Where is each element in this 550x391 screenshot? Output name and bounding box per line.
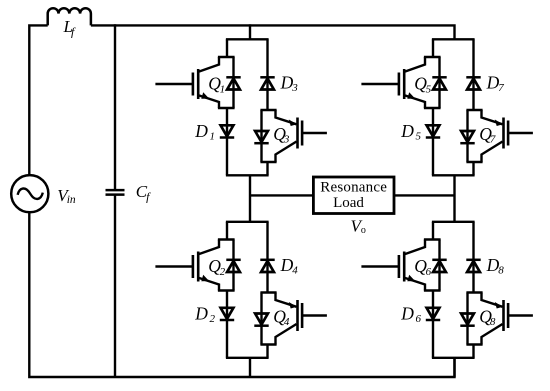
wire: Q2/D4 cell top bar	[226, 221, 269, 223]
diode D8	[466, 260, 480, 272]
wire: D2 branch bottom	[226, 291, 228, 358]
antiparallel diode of Q5	[432, 77, 446, 89]
wire: D6 branch bottom	[432, 291, 434, 358]
wire: Q2 antiparallel diode branch	[232, 240, 234, 291]
wire: D4 branch top	[266, 222, 268, 293]
diode D1	[220, 125, 234, 137]
wire: D8 branch top	[472, 222, 474, 293]
wire: load right lead	[394, 194, 455, 196]
AC source Vin	[11, 175, 48, 212]
antiparallel diode of Q8	[460, 314, 474, 326]
wire: Q7 subcell bottom stub bar	[466, 161, 482, 163]
wire: Q6 subcell top stub bar	[424, 238, 441, 240]
diode D6	[426, 308, 440, 320]
wire: Q4 subcell bottom stub bar	[260, 343, 276, 345]
transistor Q6 (IGBT)	[361, 240, 425, 291]
wire: D7 branch top	[472, 39, 474, 110]
wire: Q5/D7 cell top bar	[432, 38, 475, 40]
wire: top tap to left bridge leg	[249, 24, 251, 39]
wire: Q8 subcell bottom stub bar	[466, 343, 482, 345]
wire: D5/Q7 cell bottom bar	[432, 174, 475, 176]
wire: Q5 branch top	[432, 39, 434, 57]
wire: Q3 subcell bottom stub bar	[260, 161, 276, 163]
wire: Q2 subcell top stub bar	[218, 238, 235, 240]
wire: Cf branch top	[114, 24, 116, 190]
capacitor Cf	[106, 190, 125, 195]
wire: Q3 subcell top stub bar	[260, 109, 276, 111]
wire: Q3 branch bottom	[266, 162, 268, 175]
wire: Q6 branch top	[432, 222, 434, 240]
wire: Q6/D8 cell top bar	[432, 221, 475, 223]
inductor Lf coil	[48, 8, 91, 25]
wire: Q5 subcell bottom stub bar	[424, 107, 441, 109]
wire: Q2 subcell bottom stub bar	[218, 289, 235, 291]
wire: Q1 subcell top stub bar	[218, 56, 235, 58]
wire: Q2 branch top	[226, 222, 228, 240]
wire: D3 branch top	[266, 39, 268, 110]
antiparallel diode of Q3	[254, 131, 268, 143]
resonance load block	[313, 177, 394, 214]
transistor Q3 (IGBT)	[276, 110, 327, 162]
wire: Q6 subcell bottom stub bar	[424, 289, 441, 291]
svg-text:Resonance: Resonance	[320, 179, 387, 195]
antiparallel diode of Q4	[254, 314, 268, 326]
transistor Q5 (IGBT)	[361, 57, 425, 108]
diode D3	[260, 77, 274, 89]
wire: left mid junction (node A)	[249, 175, 251, 222]
wire: bottom rail + left/right risers	[29, 212, 454, 377]
wire: Cf branch bottom	[114, 195, 116, 377]
diode D2	[220, 308, 234, 320]
diode D7	[466, 77, 480, 89]
wire: left source wire + top-left corner	[29, 25, 47, 175]
wire: D5 branch bottom	[432, 108, 434, 175]
wire: Q4 antiparallel diode branch	[260, 293, 262, 345]
wire: Q5 antiparallel diode branch	[438, 57, 440, 108]
svg-text:Load: Load	[333, 195, 364, 211]
transistor Q1 (IGBT)	[155, 57, 219, 108]
wire: D6/Q8 cell bottom bar	[432, 357, 475, 359]
wire: Q8 subcell top stub bar	[466, 291, 482, 293]
antiparallel diode of Q7	[460, 131, 474, 143]
wire: Q5 subcell top stub bar	[424, 56, 441, 58]
wire: right bottom tap	[453, 358, 455, 377]
wire: Q1 subcell bottom stub bar	[218, 107, 235, 109]
antiparallel diode of Q1	[226, 77, 240, 89]
wire: Q8 antiparallel diode branch	[466, 293, 468, 345]
diode D5	[426, 125, 440, 137]
wire: Q7 branch bottom	[472, 162, 474, 175]
wire: Q4 branch bottom	[266, 345, 268, 358]
wire: load left lead	[250, 194, 313, 196]
wire: Q1 branch top	[226, 39, 228, 57]
wire: D1 branch bottom	[226, 108, 228, 175]
wire: Q3 antiparallel diode branch	[260, 110, 262, 162]
wire: right mid junction (node B)	[453, 175, 455, 222]
antiparallel diode of Q6	[432, 260, 446, 272]
wire: Q4 subcell top stub bar	[260, 291, 276, 293]
transistor Q8 (IGBT)	[482, 293, 533, 345]
wire: D2/Q4 cell bottom bar	[226, 357, 269, 359]
wire: Q6 antiparallel diode branch	[438, 240, 440, 291]
wire: Q1 antiparallel diode branch	[232, 57, 234, 108]
wire: top rail	[91, 25, 455, 39]
wire: Q7 antiparallel diode branch	[466, 110, 468, 162]
wire: Q8 branch bottom	[472, 345, 474, 358]
wire: Q1/D3 cell top bar	[226, 38, 269, 40]
transistor Q2 (IGBT)	[155, 240, 219, 291]
antiparallel diode of Q2	[226, 260, 240, 272]
diode D4	[260, 260, 274, 272]
transistor Q4 (IGBT)	[276, 293, 327, 345]
wire: left bottom tap	[249, 358, 251, 377]
wire: D1/Q3 cell bottom bar	[226, 174, 269, 176]
transistor Q7 (IGBT)	[482, 110, 533, 162]
wire: Q7 subcell top stub bar	[466, 109, 482, 111]
